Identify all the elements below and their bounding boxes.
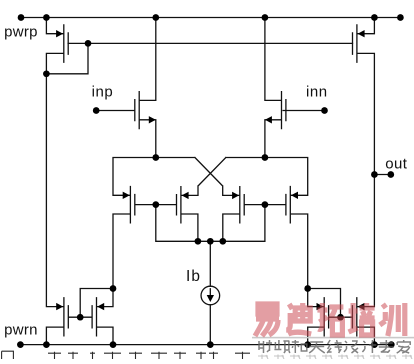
svg-text:pwrn: pwrn <box>4 322 38 339</box>
svg-text:Ib: Ib <box>186 268 201 285</box>
svg-text:pwrp: pwrp <box>4 24 38 41</box>
svg-text:inp: inp <box>92 83 114 100</box>
svg-text:out: out <box>385 155 407 172</box>
svg-text:inn: inn <box>306 83 328 100</box>
